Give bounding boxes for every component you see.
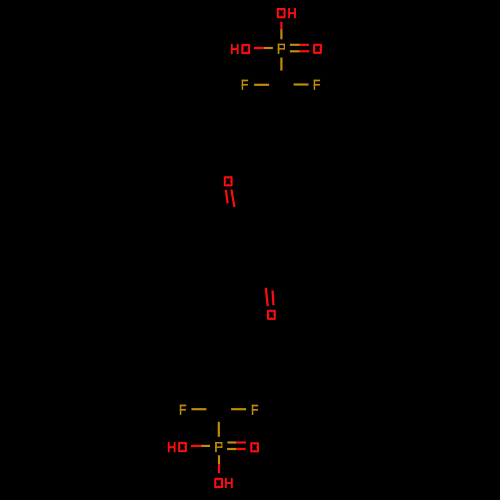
bond OH-P1 gold half: [280, 29, 282, 39]
bond P2=O lower line gold half: [227, 448, 236, 450]
atom F3 bottom left: [180, 405, 186, 415]
bond F3-C2 gold half: [191, 408, 206, 410]
bond P1=O upper line red half: [300, 44, 309, 46]
bond HO-P2 red half: [191, 445, 201, 447]
atom P1: [278, 44, 285, 54]
bond HO-P1 red half: [254, 47, 264, 49]
bond C2-F4 gold half: [231, 408, 246, 410]
bond C=O ketone2 inner line red half: [273, 290, 274, 305]
bond C=O ketone2 main line red half: [266, 288, 268, 306]
atom O double-bonded to P2: [250, 442, 259, 452]
bond C1-F2 gold half: [294, 83, 309, 85]
bond P2=O upper line red half: [236, 441, 246, 443]
bond P2=O upper line gold half: [227, 441, 236, 443]
atom H of top HO: [231, 44, 239, 54]
bond HO-P1 gold half: [264, 47, 273, 49]
bond C=O ketone1 main line red half: [231, 189, 234, 207]
bond P2-OH gold half: [218, 455, 220, 464]
atom O ketone 2: [267, 310, 276, 320]
bond P1-C1 gold half: [280, 58, 282, 71]
bond P2=O lower line red half: [236, 448, 246, 450]
atom H of bottom OH: [225, 478, 233, 488]
bond P1=O lower line gold half: [290, 50, 300, 52]
atom H of bottom HO: [168, 442, 176, 452]
atom F2 top right: [314, 80, 320, 90]
atom F1 top left: [242, 80, 248, 90]
bond P2-OH red half: [218, 464, 220, 473]
atom O double-bonded to P1: [313, 44, 322, 54]
bond C2-P2 gold half: [218, 422, 220, 437]
atom F4 bottom right: [252, 405, 258, 415]
bond HO-P2 gold half: [201, 445, 210, 447]
atom O ketone 1: [224, 176, 233, 186]
bond C=O ketone1 inner line red half: [226, 190, 228, 204]
bond P1=O upper line gold half: [290, 44, 300, 46]
bond OH-P1 red half: [280, 22, 282, 30]
bond P1=O lower line red half: [300, 50, 310, 52]
atom O of bottom HO: [178, 442, 187, 452]
atom O of top OH: [277, 8, 286, 18]
atom H of top OH: [288, 8, 296, 18]
atom P2: [215, 442, 222, 452]
atom O of top HO: [241, 44, 250, 54]
atom O of bottom OH: [214, 478, 223, 488]
bond F1-C1 gold half: [254, 84, 269, 86]
